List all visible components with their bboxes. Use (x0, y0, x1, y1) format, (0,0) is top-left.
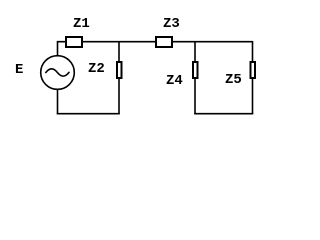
svg-text:Z3: Z3 (163, 16, 180, 32)
wire bottom rail left loop (57, 113, 120, 115)
resistor Z3 (series impedance box) (156, 37, 172, 47)
svg-text:Z5: Z5 (225, 72, 242, 88)
wire source bottom lead (57, 89, 59, 114)
resistor Z2 (shunt impedance box) (117, 62, 122, 78)
resistor Z5 (shunt impedance box) (251, 62, 256, 78)
resistor Z4 (shunt impedance box) (193, 62, 198, 78)
wire Z2 to bottom rail (118, 79, 120, 115)
wire Z4 to bottom rail (194, 79, 196, 115)
resistor Z1 (series impedance box) (66, 37, 82, 47)
source E (AC voltage source circle) (41, 56, 75, 90)
wire source top to Z1 (58, 42, 66, 56)
wire node to Z4 (194, 42, 196, 62)
wire Z3 to Z5 branch (173, 41, 253, 43)
wire bottom rail right loop (194, 113, 253, 115)
svg-text:Z1: Z1 (73, 16, 90, 32)
wire node to Z2 (118, 42, 120, 62)
svg-text:Z2: Z2 (88, 61, 105, 77)
svg-text:Z4: Z4 (166, 73, 183, 89)
svg-text:E: E (15, 62, 23, 78)
wire Z5 to bottom rail (252, 79, 254, 115)
wire Z1 to Z3 (83, 41, 155, 43)
sine wave inside source (46, 69, 69, 76)
wire top right corner down to Z5 (252, 41, 254, 62)
